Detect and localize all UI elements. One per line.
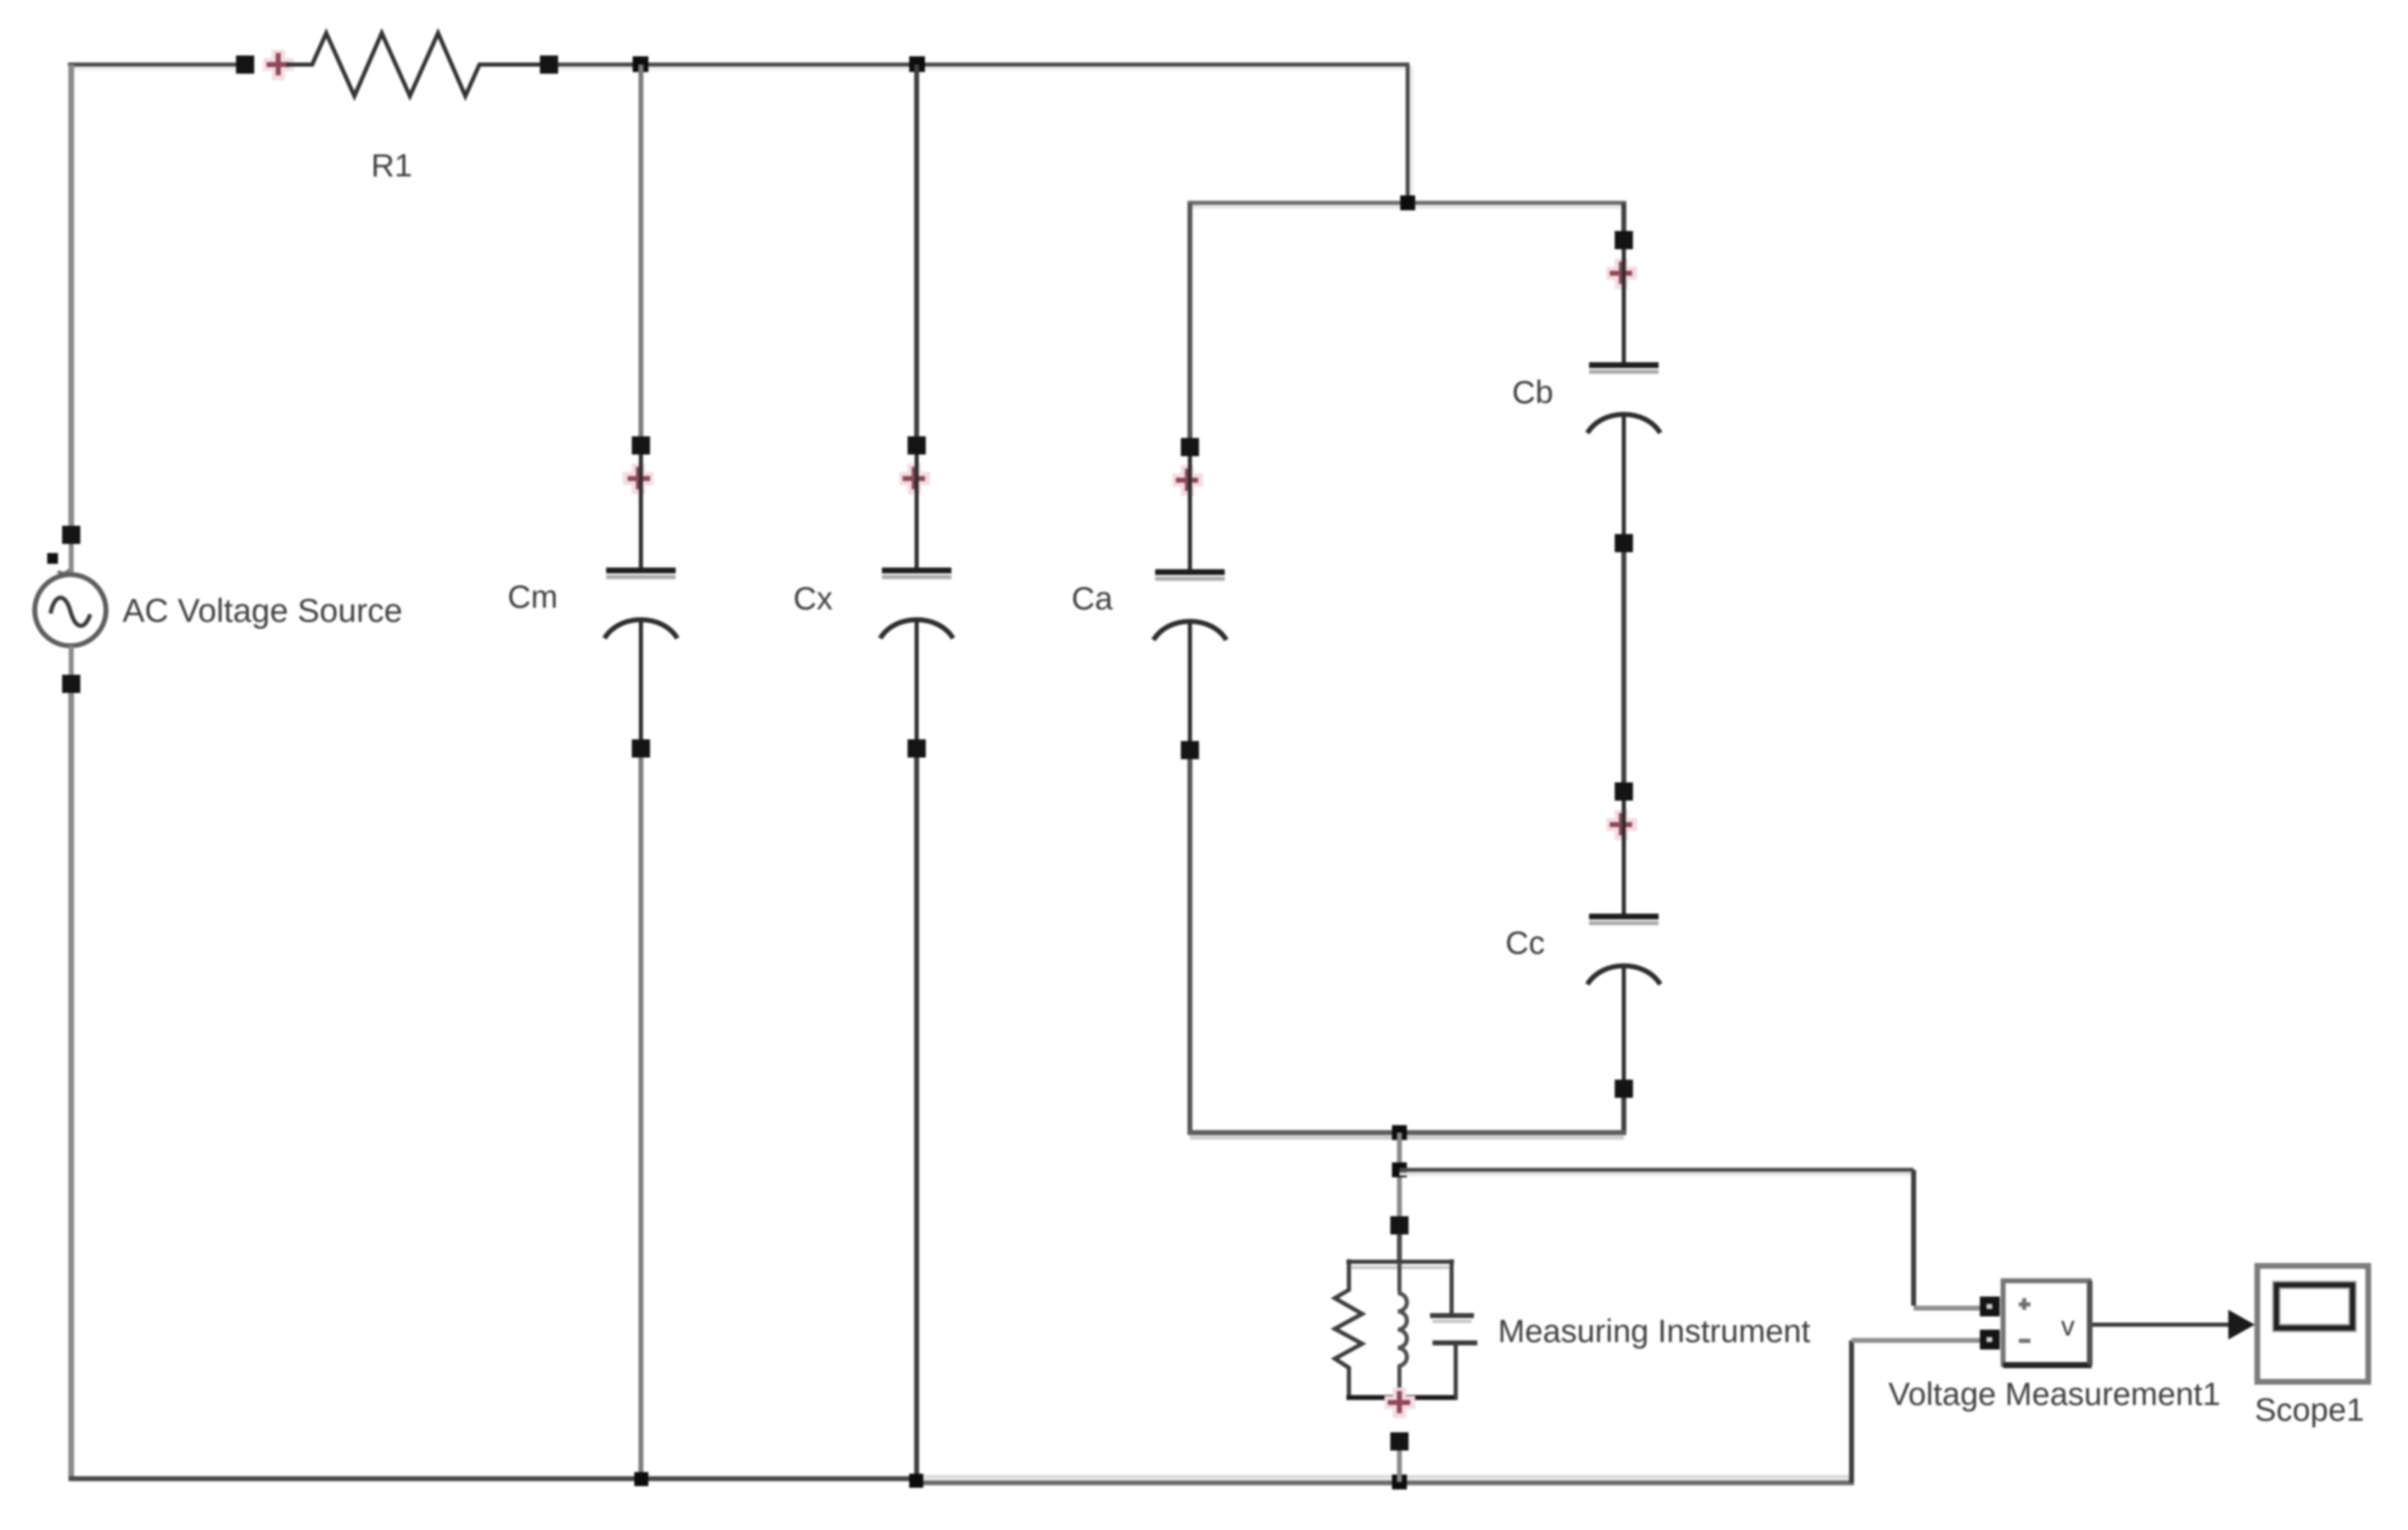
junction: inner loop top / feed from top bus: [1400, 195, 1415, 210]
svg-text:R1: R1: [371, 148, 412, 184]
capacitor Ca: flat plate: [1155, 577, 1225, 581]
wire: left vertical from AC source - down to bottom bus: [69, 690, 75, 1481]
svg-text:Cx: Cx: [793, 581, 833, 617]
Measuring Instrument: box top rail: [1346, 1262, 1454, 1268]
capacitor Cm: top port: [632, 436, 650, 455]
capacitor Cb: flat plate: [1589, 370, 1659, 374]
capacitor Ca: top port: [1181, 438, 1199, 456]
wire: tap running right to Voltage Measurement + input: [1399, 1170, 1981, 1308]
capacitor Cb: top lead: [1622, 249, 1626, 363]
capacitor Cm: polarity + mark: [623, 464, 653, 494]
junction: top bus / Cm column: [633, 56, 648, 72]
capacitor Cx: top port: [908, 436, 926, 455]
wire: Cx column upper segment: [914, 65, 919, 439]
wire: inner loop bottom rail (Ca to Cc): [1187, 1133, 1626, 1138]
Voltage Measurement1: internal - mark: [2019, 1339, 2030, 1343]
resistor R1: polarity + mark: [263, 50, 294, 80]
wire: bottom bus left segment (AC source to Cx junction): [69, 1476, 917, 1481]
Scope1: outer body: [2257, 1266, 2368, 1382]
capacitor Cc: polarity + mark: [1606, 810, 1637, 840]
capacitor Cx: bottom port: [908, 739, 926, 758]
AC Voltage Source: polarity dot: [47, 553, 70, 574]
capacitor Cb: bottom port: [1615, 534, 1633, 552]
wire: Cb column upper segment (loop top to Cb): [1621, 203, 1626, 233]
AC Voltage Source: top port: [62, 526, 80, 544]
capacitor Cm: curved plate: [604, 620, 677, 639]
svg-text:Cm: Cm: [508, 580, 558, 615]
capacitor Cb: polarity + mark: [1606, 258, 1637, 289]
capacitor Ca: bottom lead: [1188, 621, 1192, 741]
wire: loop bottom to measuring instrument (with tap junction): [1397, 1133, 1402, 1216]
AC Voltage Source: circle body: [35, 575, 106, 646]
capacitor Ca: bottom port: [1181, 741, 1199, 759]
wire: inner loop top rail (Ca to Cb): [1187, 203, 1626, 207]
capacitor Ca: curved plate: [1153, 622, 1226, 641]
svg-text:Cc: Cc: [1505, 926, 1545, 961]
wire: left vertical from top bus to AC source +: [69, 65, 75, 527]
capacitor Cc: bottom port: [1615, 1080, 1633, 1098]
junction: tap to Voltage Measurement +: [1392, 1162, 1407, 1177]
junction: bottom bus / Cm column: [634, 1472, 648, 1486]
Measuring Instrument: top lead into box: [1397, 1234, 1402, 1264]
capacitor Cb: bottom lead: [1622, 414, 1626, 534]
junction: inner loop bottom / measuring branch: [1392, 1125, 1407, 1140]
svg-text:Scope1: Scope1: [2255, 1393, 2364, 1428]
wire: bottom bus riser to Voltage Measurement - input: [1852, 1340, 1981, 1483]
svg-text:AC Voltage Source: AC Voltage Source: [123, 593, 402, 629]
Voltage Measurement1: - input port: [1980, 1330, 2000, 1350]
Measuring Instrument: top port: [1390, 1216, 1409, 1234]
Measuring Instrument: internal inductor branch (middle coil): [1398, 1262, 1407, 1400]
capacitor Cx: curved plate: [880, 620, 953, 639]
wire: measuring instrument bottom port to bottom bus: [1397, 1451, 1402, 1482]
resistor R1: zigzag body: [287, 33, 540, 96]
capacitor Ca: top lead: [1188, 456, 1192, 570]
arrowhead into Scope1: [2228, 1310, 2255, 1340]
wire: top bus from AC source to R1 and right corner: [68, 65, 1409, 69]
Measuring Instrument: box bottom rail: [1346, 1395, 1454, 1400]
capacitor Cc: top port: [1615, 782, 1633, 801]
wire: Cc to inner loop bottom: [1621, 1096, 1626, 1135]
capacitor Cb: top port: [1615, 231, 1633, 249]
resistor R1: left port: [236, 55, 254, 74]
svg-text:Ca: Ca: [1072, 581, 1113, 617]
wire: series link between Cb and Cc: [1621, 551, 1626, 784]
svg-text:v: v: [2061, 1311, 2075, 1341]
svg-text:Voltage Measurement1: Voltage Measurement1: [1888, 1377, 2220, 1412]
resistor R1: right port: [540, 55, 558, 74]
capacitor Cb: curved plate: [1587, 415, 1660, 434]
Measuring Instrument: bottom port: [1390, 1432, 1409, 1451]
wire: Cm column upper segment: [638, 65, 643, 439]
Voltage Measurement1: block body: [2003, 1281, 2092, 1365]
junction: bottom bus / Cx column: [909, 1474, 923, 1488]
capacitor Cm: top lead: [639, 455, 643, 568]
AC Voltage Source: bottom stub: [69, 646, 74, 676]
capacitor Cc: top lead: [1622, 801, 1626, 914]
wire: Ca column upper segment (loop top to Ca): [1187, 203, 1192, 441]
Scope1: screen: [2276, 1285, 2353, 1328]
Measuring Instrument: internal capacitor branch (right): [1430, 1259, 1477, 1400]
junction: bottom bus / measuring instrument return: [1392, 1475, 1407, 1489]
capacitor Cm: bottom lead: [639, 619, 643, 739]
AC Voltage Source: bottom port: [62, 675, 80, 693]
Measuring Instrument: internal resistor branch (left, zigzag): [1335, 1259, 1362, 1400]
wire: Ca column lower segment (Ca to loop bottom): [1187, 757, 1192, 1135]
capacitor Cc: curved plate: [1587, 966, 1660, 985]
Measuring Instrument: polarity + mark at bottom: [1385, 1388, 1415, 1418]
capacitor Cx: bottom lead: [915, 619, 919, 739]
capacitor Cx: flat plate: [882, 575, 951, 580]
Voltage Measurement1: internal + mark: [2019, 1298, 2030, 1310]
wire: vertical drop at x=1700 from top bus to inner loop top: [1408, 65, 1412, 203]
Voltage Measurement1: + input port: [1980, 1297, 2000, 1316]
capacitor Ca: polarity + mark: [1173, 465, 1203, 496]
capacitor Cc: flat plate: [1589, 921, 1659, 926]
wire: Cx column lower segment: [914, 755, 919, 1481]
capacitor Cx: polarity + mark: [899, 464, 930, 494]
svg-text:Measuring Instrument: Measuring Instrument: [1498, 1314, 1810, 1350]
wire: bottom bus right segment (Cx junction to Voltage Measurement riser): [917, 1477, 1854, 1483]
svg-text:Cb: Cb: [1512, 375, 1553, 411]
AC Voltage Source: sine glyph: [51, 598, 90, 626]
capacitor Cx: top lead: [915, 455, 919, 568]
junction: top bus / Cx column: [909, 56, 925, 72]
capacitor Cm: flat plate: [606, 575, 676, 580]
capacitor Cc: bottom lead: [1622, 965, 1626, 1080]
AC Voltage Source: top stub: [69, 544, 74, 575]
wire: Cm column lower segment: [638, 755, 643, 1479]
wire: Voltage Measurement1 output to Scope1: [2093, 1323, 2232, 1327]
capacitor Cm: bottom port: [632, 739, 650, 758]
